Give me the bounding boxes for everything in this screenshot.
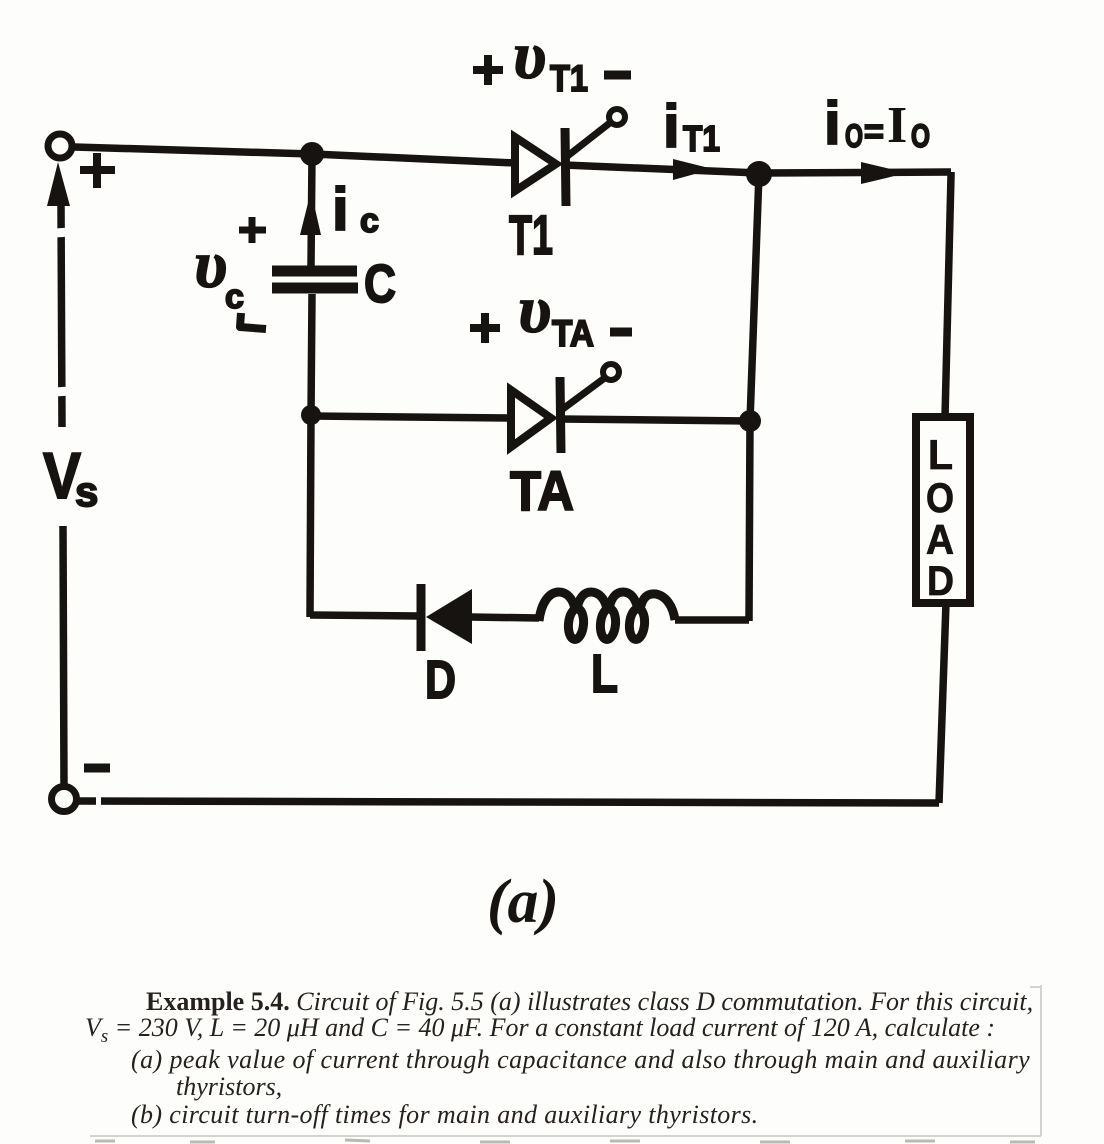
svg-text:O: O <box>926 474 954 521</box>
node junction top-right <box>746 161 772 187</box>
node junction TA-right <box>739 410 761 432</box>
terminal - bottom <box>52 787 77 812</box>
diode D <box>426 589 472 644</box>
wire capacitor bottom <box>311 294 312 415</box>
wire TA right <box>560 419 750 421</box>
svg-text:i: i <box>824 90 841 157</box>
wire top left <box>74 147 516 163</box>
node junction TA-left <box>301 405 321 425</box>
wire load bottom <box>939 603 946 803</box>
node junction top-cap <box>300 142 324 166</box>
wire left inner vertical <box>310 415 311 617</box>
minus sign bottom-left <box>84 764 110 773</box>
svg-text:T1: T1 <box>509 203 553 266</box>
svg-text:c: c <box>360 202 379 240</box>
wire left upper <box>61 205 62 427</box>
svg-text:υ: υ <box>518 271 551 347</box>
svg-text:TA: TA <box>510 459 574 522</box>
scan artifact: nicks in left wire <box>55 232 70 392</box>
minus sign vT1 <box>604 71 631 80</box>
wire right inner vertical <box>749 173 759 621</box>
wire D to L <box>470 617 539 618</box>
LOAD box <box>916 417 970 603</box>
svg-text:TA: TA <box>552 313 594 354</box>
scan artifact: faint dashes along bottom edge <box>95 1140 1035 1142</box>
svg-text:C: C <box>364 254 396 314</box>
arrow iT1 <box>673 159 713 180</box>
capacitor current arrow ic <box>300 191 321 235</box>
svg-text:T1: T1 <box>550 58 588 99</box>
scan artifact: faint frame around caption <box>90 985 1041 1136</box>
minus sign vc <box>240 313 266 329</box>
inductor L coil <box>539 592 675 640</box>
svg-text:A: A <box>926 516 954 563</box>
svg-text:=: = <box>864 113 884 151</box>
wire bottom <box>78 801 939 803</box>
wire L right <box>675 616 749 624</box>
wire D-L branch left <box>310 615 419 616</box>
svg-text:i: i <box>663 93 680 160</box>
wire capacitor top <box>311 154 312 266</box>
svg-text:υ: υ <box>194 226 227 302</box>
svg-text:i: i <box>332 176 349 243</box>
arrow io <box>861 162 907 184</box>
plus sign top-left <box>80 153 115 188</box>
svg-text:O: O <box>845 118 863 154</box>
plus sign vT1 <box>473 55 503 85</box>
svg-text:υ: υ <box>513 17 546 93</box>
wire right load top <box>945 172 951 417</box>
capacitor C plates <box>272 266 357 277</box>
thyristor TA <box>511 377 606 453</box>
plus sign vTA <box>470 313 500 343</box>
thyristor T1 <box>515 122 611 206</box>
svg-text:D: D <box>425 650 456 710</box>
terminal + top <box>48 134 72 158</box>
plus sign vc <box>239 217 266 243</box>
svg-text:T1: T1 <box>683 118 720 159</box>
svg-text:O: O <box>911 118 930 154</box>
wire TA left <box>311 416 512 418</box>
svg-text:D: D <box>927 557 954 604</box>
Vs source arrow <box>47 162 70 206</box>
svg-text:L: L <box>928 431 953 478</box>
svg-text:c: c <box>225 278 244 316</box>
scan artifact: nick in bottom wire near terminal <box>96 796 101 806</box>
caption text block <box>0 0 1104 1</box>
svg-text:(a): (a) <box>487 868 559 936</box>
svg-text:s: s <box>75 468 98 515</box>
svg-text:I: I <box>887 97 907 154</box>
minus sign vTA <box>610 328 632 337</box>
wire left lower <box>63 526 64 789</box>
wire top right <box>564 165 951 173</box>
svg-text:L: L <box>591 644 618 704</box>
